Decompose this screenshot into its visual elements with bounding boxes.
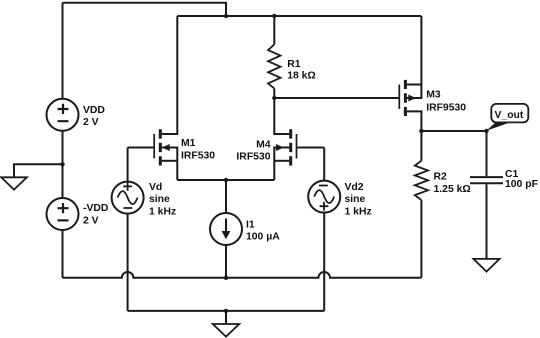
svg-text:sine: sine [345,194,366,205]
svg-text:M1: M1 [181,138,196,149]
svg-text:V_out: V_out [495,110,524,121]
svg-text:IRF9530: IRF9530 [426,102,466,113]
svg-text:R1: R1 [287,59,301,70]
svg-text:M3: M3 [426,90,441,101]
svg-text:I1: I1 [246,220,255,231]
svg-text:Vd2: Vd2 [345,182,364,193]
svg-text:18 kΩ: 18 kΩ [287,71,316,82]
svg-text:IRF530: IRF530 [236,152,270,163]
svg-text:-VDD: -VDD [83,203,109,214]
svg-text:100 pF: 100 pF [505,179,538,190]
svg-text:C1: C1 [505,169,519,180]
svg-text:IRF530: IRF530 [181,150,215,161]
svg-text:Vd: Vd [149,182,162,193]
svg-text:M4: M4 [256,140,271,151]
svg-text:VDD: VDD [83,105,105,116]
svg-text:100 µA: 100 µA [246,232,280,243]
svg-text:1 kHz: 1 kHz [345,207,372,218]
svg-text:R2: R2 [434,172,448,183]
svg-text:1.25 kΩ: 1.25 kΩ [434,184,471,195]
svg-text:2 V: 2 V [83,117,99,128]
svg-text:2 V: 2 V [83,216,99,227]
svg-text:1 kHz: 1 kHz [149,207,176,218]
svg-text:sine: sine [149,194,170,205]
